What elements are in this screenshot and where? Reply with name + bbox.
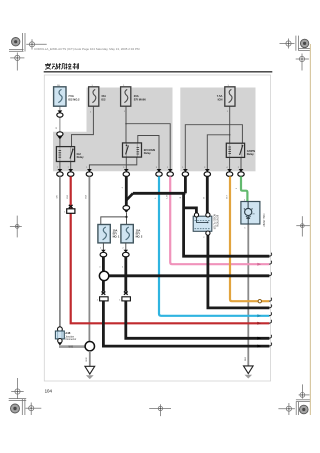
wire fuse3 down through junction into EFI MAIN relay switch: [125, 106, 127, 143]
direction arrow on cyan wire: [257, 314, 261, 317]
svg-text:1: 1: [97, 300, 99, 302]
wire block2 feed from C/OPN switch top: [185, 125, 242, 169]
wire IG2 relay coil to connector row: [59, 161, 61, 169]
crosshair top-right B: [296, 54, 309, 71]
svg-text:1: 1: [64, 211, 66, 213]
svg-text:GR: GR: [57, 195, 59, 199]
crosshair top-left A: [26, 39, 46, 49]
svg-text:COROLLA_EWD-ACTS (ICT).book P: COROLLA_EWD-ACTS (ICT).book Page 104 Sat…: [34, 47, 140, 51]
junction dot EFI fuse feed: [125, 216, 127, 218]
svg-text:L-R: L-R: [166, 195, 168, 199]
thick black: EFI NO.1 wire below ring: [102, 281, 105, 292]
thick black: diagonal branch to +B rail: [126, 193, 133, 200]
wire IG2 relay switch to connector row: [70, 161, 72, 169]
connector (green fuel pump wire): [238, 169, 244, 176]
fuse 10A EFI NO.2 (highlighted): [121, 225, 143, 243]
shield box on EFI NO.2 wire: [122, 297, 130, 301]
thick black: connector to noise filter input: [206, 176, 209, 213]
svg-text:M: M: [253, 213, 255, 215]
junction dot fuse4 branch: [229, 134, 231, 136]
crosshair bottom-left A: [11, 378, 24, 399]
crop lines top-left: [9, 33, 25, 52]
shield box on EFI NO.1 wire: [100, 297, 109, 301]
registration bullseye bottom-left: [11, 404, 20, 413]
wire: green C/OPN to fuel pump: [241, 176, 247, 202]
wire: red IG2 to ECM: [71, 176, 270, 323]
crosshair top-left B: [10, 53, 24, 71]
crosshair bottom-right A: [299, 384, 310, 398]
splice X on EFI NO.2 wire: [124, 292, 128, 295]
connector (gray ground wire): [57, 169, 63, 176]
relay C/OPN: [226, 143, 255, 157]
A48 junction connector: [55, 327, 76, 346]
wire EFI MAIN relay coil ground to connector: [89, 157, 136, 169]
svg-text:2: 2: [122, 247, 124, 249]
svg-text:Connector: Connector: [65, 338, 76, 341]
crosshair bottom-right B: [278, 403, 295, 415]
connector (relay coil ground wire): [86, 169, 92, 176]
connector (orange wire): [226, 169, 232, 176]
wire fuse3 junction to pink connector: [126, 124, 170, 170]
junction ring EFI NO.1: [99, 271, 108, 280]
crop lines bottom-right: [296, 400, 310, 415]
wire: fuel pump ground W-B: [247, 224, 249, 366]
connector (pink BATT wire): [167, 169, 173, 176]
connector below fuse NO.2: [123, 250, 130, 257]
crosshair right-middle: [296, 216, 310, 236]
svg-text:104: 104: [45, 389, 53, 394]
svg-text:B-R: B-R: [86, 194, 88, 198]
svg-text:Relay: Relay: [247, 152, 254, 156]
connector (noise filter feed wire): [204, 169, 210, 176]
thick black: EFI NO.1 to ECM bottom row: [103, 301, 269, 346]
thick black: FC connector wire down: [184, 176, 187, 193]
junction dot fuse3 branch: [125, 123, 127, 125]
fuse 7.5A IG2 NO.2 (highlighted): [54, 87, 80, 106]
thick black: branch to noise filter: [184, 208, 197, 213]
connector circle on orange wire: [258, 300, 261, 303]
wire C/OPN relay coil to orange connector: [229, 157, 231, 169]
char 控: [65, 63, 71, 69]
connector row: junction block outputs: [57, 169, 245, 176]
direction arrow on red wire: [257, 322, 261, 325]
fuse 15A IG2: [89, 87, 107, 106]
tan page-edge line right: [309, 44, 311, 415]
char 发: [45, 63, 51, 69]
char 制: [73, 63, 78, 69]
fuse 7.5A IGN: [217, 87, 235, 106]
inline connector pair entering block (oval + arrow): [57, 132, 63, 140]
svg-text:NO. 1: NO. 1: [113, 235, 120, 239]
svg-text:IG2: IG2: [101, 97, 106, 101]
crosshair left-middle: [10, 216, 22, 238]
svg-text:W-B: W-B: [245, 356, 247, 361]
registration bullseye top-right: [300, 39, 308, 47]
char 机: [58, 63, 64, 69]
body ground symbol left: [85, 366, 95, 379]
body ground symbol right (fuel pump): [244, 366, 254, 379]
wire C/OPN relay switch to green connector: [240, 157, 242, 169]
registration bullseye bottom-right: [300, 405, 309, 414]
connector (red IG2 wire): [68, 169, 74, 176]
fuse 10A EFI NO.1 (highlighted): [98, 225, 120, 243]
wire: pink BATT to ECM: [170, 176, 269, 264]
direction arrow on black EFI NO.1 wire: [257, 345, 261, 348]
connector (cyan MREL wire): [156, 169, 162, 176]
svg-text:5: 5: [244, 227, 246, 229]
thin wire diamond to EFI fuses: [101, 213, 127, 225]
junction dot noise filter line at EFI rail: [207, 275, 209, 277]
wire fuse4 junction to connector: [207, 135, 229, 169]
wire EFI MAIN relay coil to cyan connector: [138, 136, 159, 170]
noise filter (ignition): [193, 213, 217, 235]
wire: cyan MREL to ECM: [159, 176, 269, 315]
wire between inline connectors (B): [59, 117, 61, 132]
wire EFI MAIN relay switch to connector row: [125, 157, 127, 169]
thick black: main vertical to ECM row: [184, 193, 270, 256]
thick black: EFI NO.1 wire down: [102, 257, 105, 272]
wire: orange FC to ECM: [230, 176, 269, 301]
svg-text:EFI MAIN: EFI MAIN: [134, 97, 146, 101]
page continuation hooks at right frame: [269, 253, 272, 346]
title 发动机控制 (drawn glyphs): [45, 63, 78, 69]
svg-text:2: 2: [236, 187, 238, 189]
svg-text:1: 1: [119, 300, 121, 302]
shield box on red wire: [67, 209, 75, 214]
svg-text:B: B: [180, 196, 182, 198]
direction arrow on pink wire: [257, 263, 261, 266]
char 动: [52, 63, 58, 69]
relay EFI MAIN: [123, 143, 156, 157]
svg-text:FUEL PUMP: FUEL PUMP: [262, 214, 264, 228]
relay IG2: [56, 147, 84, 162]
svg-text:IG2 NO.2: IG2 NO.2: [68, 97, 80, 101]
svg-text:Relay: Relay: [77, 155, 84, 159]
crosshair bottom-center: [149, 404, 171, 416]
svg-text:B: B: [204, 197, 206, 199]
micro pin and wire labels: [56, 85, 247, 362]
crop lines top-right: [296, 36, 310, 51]
svg-text:(IGNITION): (IGNITION): [215, 215, 217, 227]
svg-text:2: 2: [100, 247, 102, 249]
thin wire fuse NO.2 to connector: [125, 243, 127, 250]
svg-text:2: 2: [203, 237, 205, 239]
title underline: [44, 71, 273, 72]
junction dot +B rail: [182, 192, 184, 194]
svg-text:IGN: IGN: [218, 97, 223, 101]
svg-text:Relay: Relay: [144, 151, 151, 155]
svg-text:B-Y: B-Y: [227, 194, 229, 198]
W-B band to ground junction: [59, 345, 85, 348]
wire connector to IG2 relay coil: [59, 138, 61, 147]
connector (FC control wire): [182, 169, 188, 176]
diamond connector on EFI relay output: [123, 206, 130, 213]
thick black: EFI rail to ECM: [109, 274, 270, 277]
svg-text:4: 4: [122, 186, 124, 188]
svg-text:4: 4: [122, 266, 124, 268]
splice X on red wire: [69, 205, 73, 208]
crop lines bottom-left: [9, 399, 27, 415]
diagram frame: [44, 75, 270, 381]
wire fuse1 to inline connector: [59, 106, 61, 110]
junction dot noise filter branch: [182, 207, 184, 209]
crosshair top-right A: [280, 39, 295, 49]
registration bullseye top-left: [12, 38, 20, 46]
thick black: EFI relay output down: [125, 176, 128, 205]
crosshair bottom-left B: [26, 403, 42, 416]
ground junction ring: [85, 342, 94, 351]
thick black: noise filter output to ECM: [208, 235, 270, 308]
wire ring to body ground: [89, 351, 91, 366]
thick black: +B rail horizontal: [133, 192, 185, 195]
svg-text:L: L: [155, 197, 157, 199]
thick black: EFI NO.2 wire down: [124, 257, 127, 292]
svg-text:W-B: W-B: [86, 357, 88, 362]
fuel pump: [241, 202, 264, 228]
svg-text:NO. 2: NO. 2: [136, 235, 143, 239]
svg-text:4: 4: [99, 266, 101, 268]
svg-text:B: B: [56, 127, 58, 129]
svg-text:NOISE FILTER: NOISE FILTER: [213, 214, 215, 230]
thin wire fuse NO.1 to connector: [102, 243, 104, 250]
junction block 2 gray background: [180, 88, 255, 172]
wire: ground gray from IG2 relay coil: [59, 176, 61, 327]
fuse 20A EFI MAIN: [121, 87, 146, 106]
connector below fuse NO.1: [100, 250, 107, 257]
splice X on EFI NO.1 wire: [102, 292, 106, 295]
svg-text:B-R: B-R: [67, 194, 69, 198]
wire: ground gray from EFI relay coil: [88, 176, 90, 341]
direction arrow on black EFI NO.2 wire: [257, 337, 261, 340]
thick black: EFI NO.2 to ECM row: [126, 301, 270, 338]
wire fuse4 down into C/OPN relay coil: [229, 106, 231, 143]
wire fuse2 to IG2 relay switch: [72, 106, 94, 147]
junction block 1 (engine room R/B) gray background: [53, 88, 173, 172]
connector (EFI relay output): [123, 169, 129, 176]
inline connector pair below fuse1 (arrow + oval): [57, 110, 63, 117]
svg-text:W-B: W-B: [69, 347, 74, 349]
